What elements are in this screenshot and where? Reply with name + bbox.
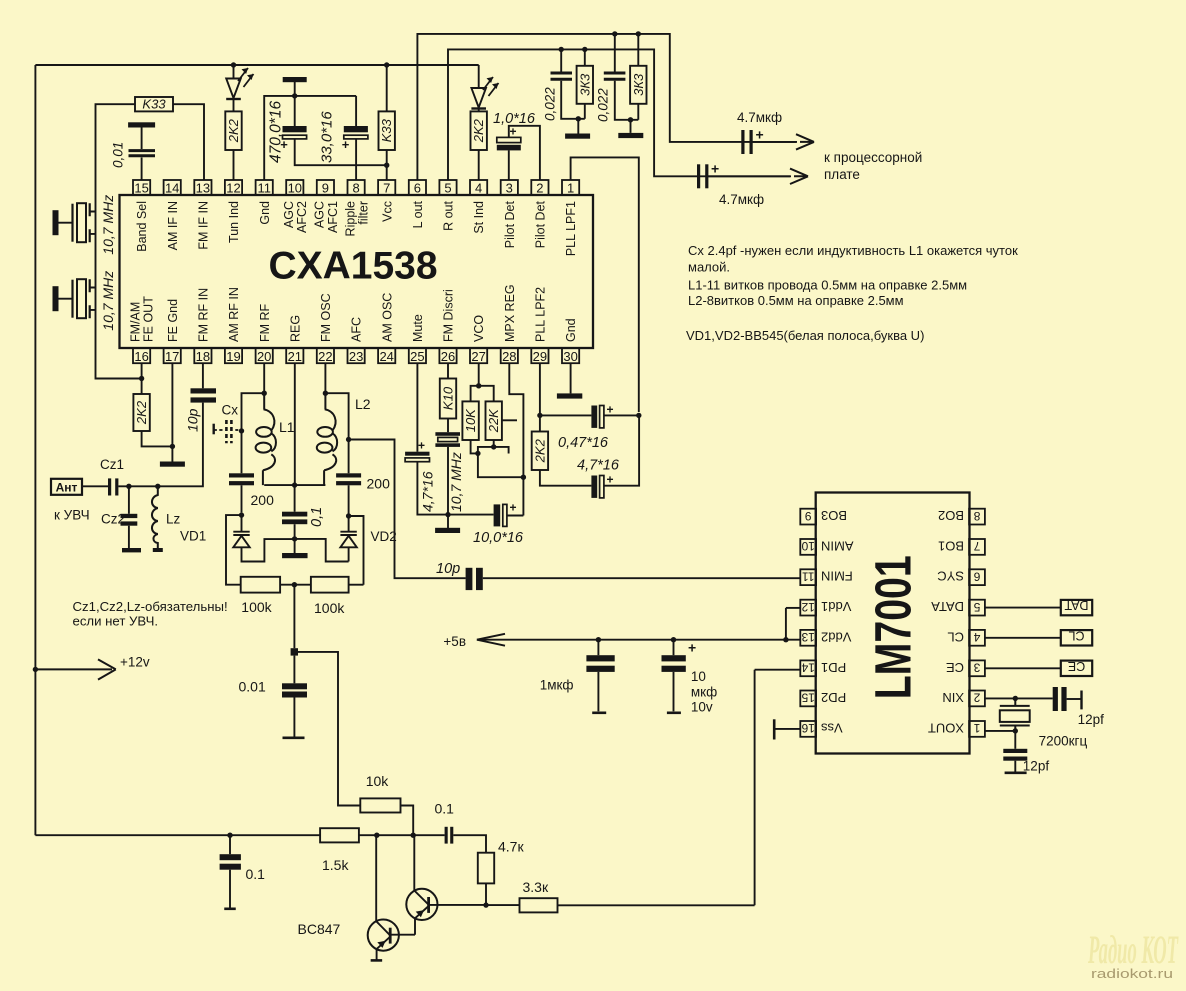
svg-text:16: 16 <box>134 349 148 364</box>
svg-text:плате: плате <box>824 167 860 182</box>
wire <box>637 104 639 120</box>
svg-text:CL: CL <box>947 629 964 644</box>
wire <box>493 514 495 516</box>
wire <box>229 870 231 909</box>
wire 22K stub <box>502 419 517 421</box>
wire <box>142 431 173 446</box>
junction <box>155 484 160 489</box>
node (square junction) <box>291 648 298 655</box>
wire <box>348 485 350 516</box>
U2 pin 3 CE <box>946 660 985 676</box>
svg-text:Vdd2: Vdd2 <box>821 629 851 644</box>
svg-text:22: 22 <box>318 349 332 364</box>
svg-text:Ант: Ант <box>56 480 78 494</box>
junction <box>582 47 587 52</box>
svg-text:+: + <box>607 403 614 417</box>
svg-text:7200кгц: 7200кгц <box>1039 734 1088 749</box>
svg-text:+: + <box>342 137 350 152</box>
IC U1 CXA1538 body <box>120 195 594 348</box>
junction <box>346 437 351 442</box>
junction <box>384 163 389 168</box>
junction <box>231 62 236 67</box>
svg-text:MPX REG: MPX REG <box>503 284 517 342</box>
svg-text:CXA1538: CXA1538 <box>268 245 437 288</box>
svg-text:0,1: 0,1 <box>309 507 325 527</box>
wire <box>280 584 311 586</box>
svg-text:REG: REG <box>288 315 302 342</box>
wire <box>141 128 143 150</box>
pin 21 (REG) <box>286 315 303 364</box>
note text block <box>686 243 1018 343</box>
junction <box>170 444 175 449</box>
svg-text:2K2: 2K2 <box>226 118 241 143</box>
svg-text:DAT: DAT <box>1064 598 1088 612</box>
capacitor 10p (RF in) <box>191 388 217 393</box>
wire <box>229 835 231 854</box>
svg-text:4: 4 <box>475 181 482 196</box>
resistor 3.3к <box>520 898 558 912</box>
svg-text:0.1: 0.1 <box>246 866 266 882</box>
ground (12pf XIN) <box>1080 691 1082 710</box>
antenna terminal box Ант <box>51 479 82 495</box>
pin 29 (PLL LPF2) <box>531 287 548 364</box>
wire <box>1067 698 1081 700</box>
svg-text:3: 3 <box>973 661 980 675</box>
svg-text:2: 2 <box>973 691 980 705</box>
svg-text:BO3: BO3 <box>821 508 847 523</box>
capacitor 12pf (XIN) <box>1053 687 1058 711</box>
wire <box>597 640 599 656</box>
capacitor 0,01 <box>129 151 156 156</box>
wire <box>561 81 585 119</box>
svg-text:Cz1: Cz1 <box>100 457 124 472</box>
capacitor 200 (VD2) <box>336 473 361 477</box>
wire PLL LPF1 <box>571 157 639 412</box>
wire pin27 <box>478 363 480 386</box>
wire pin25 <box>416 363 418 452</box>
svg-text:12: 12 <box>226 181 240 196</box>
wire <box>401 806 414 836</box>
svg-text:200: 200 <box>367 476 391 492</box>
wire <box>604 415 639 485</box>
svg-text:L out: L out <box>411 200 425 228</box>
svg-text:100k: 100k <box>314 600 345 616</box>
svg-text:VD1: VD1 <box>180 529 206 544</box>
resistor 4.7к <box>478 853 494 884</box>
svg-text:0.1: 0.1 <box>435 801 455 817</box>
junction <box>491 444 496 449</box>
note Cz1,Cz2,Lz <box>73 599 228 629</box>
junction <box>521 475 526 480</box>
ground (discri) <box>435 528 460 533</box>
wire <box>242 393 265 473</box>
svg-text:+5в: +5в <box>443 634 466 649</box>
capacitor 4,7*16 (mute) <box>405 452 429 456</box>
wire <box>486 904 520 906</box>
svg-text:14: 14 <box>801 661 815 675</box>
U2 pin 5 DATA <box>931 599 985 615</box>
svg-text:11: 11 <box>257 181 271 196</box>
svg-text:10k: 10k <box>366 773 390 789</box>
resistor 2K2 (PLL) <box>532 432 548 471</box>
U2 pin 4 CL <box>947 629 985 645</box>
svg-text:Pilot Det: Pilot Det <box>534 200 548 248</box>
capacitor 470,0*16 electrolytic <box>283 126 307 132</box>
svg-text:12pf: 12pf <box>1023 759 1050 774</box>
svg-text:CE: CE <box>1068 659 1085 673</box>
svg-text:470,0*16: 470,0*16 <box>268 101 285 163</box>
wire XIN <box>985 697 1053 699</box>
arrow +5в <box>477 634 505 646</box>
wire <box>1014 761 1016 773</box>
svg-text:Tun Ind: Tun Ind <box>227 201 241 243</box>
capacitor 0.01 <box>282 683 307 689</box>
wire pin29 <box>539 363 541 431</box>
wire to 10k <box>298 652 360 806</box>
svg-text:25: 25 <box>410 349 424 364</box>
wire pin28 <box>509 363 523 515</box>
ceramic filter ZQ2 10,7 MHz <box>53 279 96 318</box>
junction <box>628 117 633 122</box>
capacitor 4,7*16 (PLL) <box>591 476 597 498</box>
svg-text:16: 16 <box>801 721 815 735</box>
capacitor 1,0*16 electrolytic <box>497 137 521 142</box>
svg-text:SYC: SYC <box>937 569 964 584</box>
pin 11 (Gnd) <box>256 180 273 225</box>
svg-text:AFC: AFC <box>350 317 364 342</box>
svg-text:33,0*16: 33,0*16 <box>319 111 336 163</box>
svg-text:+: + <box>711 161 719 177</box>
svg-text:1: 1 <box>973 721 980 735</box>
ground (470 cap) <box>283 77 307 82</box>
svg-text:27: 27 <box>471 349 485 364</box>
junction <box>292 536 297 541</box>
ground (Q1) <box>371 959 383 962</box>
connector box CE <box>985 659 1092 676</box>
capacitor 0,022 (pair1) <box>551 73 573 79</box>
svg-text:DATA: DATA <box>931 599 964 614</box>
ground (pin30) <box>557 393 582 398</box>
svg-text:0,47*16: 0,47*16 <box>558 435 609 451</box>
resistor 3К3 (pair2) <box>630 66 646 104</box>
svg-text:6: 6 <box>414 181 421 196</box>
resistor 100k (1) <box>241 577 280 593</box>
wire <box>471 386 479 402</box>
arrow +12v <box>35 659 115 679</box>
svg-text:100k: 100k <box>241 599 272 615</box>
wire L out <box>417 34 796 180</box>
wire <box>293 698 295 738</box>
capacitor 12pf (XOUT) <box>1003 749 1027 753</box>
junction <box>483 902 488 907</box>
junction <box>292 582 297 587</box>
wire <box>295 139 387 165</box>
svg-text:Mute: Mute <box>411 314 425 342</box>
junction <box>292 93 297 98</box>
svg-text:FM OSC: FM OSC <box>319 293 333 342</box>
svg-text:29: 29 <box>533 349 547 364</box>
transistor Q1 BC847 <box>368 835 415 960</box>
svg-text:AFC1: AFC1 <box>326 201 340 233</box>
svg-text:VD2: VD2 <box>371 529 397 544</box>
LED VD stereo indicator <box>471 65 498 111</box>
wire <box>485 883 487 905</box>
svg-text:малой.: малой. <box>688 260 730 275</box>
wire pin18 <box>202 363 204 388</box>
pin 26 (FM Discri) <box>439 289 456 364</box>
junction <box>374 833 379 838</box>
pin 9 (AGC AFC1) <box>313 180 340 233</box>
svg-text:AFC2: AFC2 <box>295 201 309 233</box>
svg-text:21: 21 <box>288 349 302 364</box>
wire <box>294 524 296 553</box>
svg-text:23: 23 <box>349 349 363 364</box>
svg-text:Band Sel: Band Sel <box>135 201 149 252</box>
wire <box>478 447 524 477</box>
svg-text:10p: 10p <box>436 561 460 577</box>
capacitor Cx (dashed, optional) <box>214 420 240 443</box>
svg-text:PLL LPF1: PLL LPF1 <box>564 201 578 256</box>
svg-text:0,022: 0,022 <box>596 88 611 122</box>
pin 13 (FM IF IN) <box>194 180 211 250</box>
wire PD1 down <box>754 670 756 906</box>
wire <box>128 486 130 514</box>
wire <box>604 414 639 416</box>
capacitor 1мкф <box>586 655 614 661</box>
svg-text:FE Gnd: FE Gnd <box>166 299 180 342</box>
svg-text:4.7к: 4.7к <box>498 839 524 855</box>
ceramic discriminator 10,7 MHz <box>435 432 460 447</box>
svg-text:9: 9 <box>805 509 812 523</box>
svg-text:PLL LPF2: PLL LPF2 <box>534 287 548 342</box>
svg-text:13: 13 <box>801 630 815 644</box>
svg-text:+: + <box>607 473 614 487</box>
svg-text:3К3: 3К3 <box>631 73 646 96</box>
wire left +12v bus <box>34 65 36 835</box>
U2 pin 12 Vdd1 <box>800 599 851 615</box>
svg-text:10p: 10p <box>185 408 201 432</box>
capacitor 10,0*16 <box>494 504 501 526</box>
svg-text:6: 6 <box>973 569 980 583</box>
svg-text:15: 15 <box>134 181 148 196</box>
pin 28 (MPX REG) <box>501 284 518 363</box>
wire <box>417 462 493 515</box>
connector box DAT <box>985 598 1092 615</box>
ground (pair2) <box>618 133 643 138</box>
svg-text:R out: R out <box>442 200 456 230</box>
capacitor 4.7мкф (R) <box>697 164 700 188</box>
svg-text:Cz1,Cz2,Lz-обязательны!: Cz1,Cz2,Lz-обязательны! <box>73 599 228 614</box>
resistor K33 (band sel) <box>135 97 173 112</box>
pin 14 (AM IF IN) <box>164 180 181 250</box>
wire <box>637 34 639 66</box>
wire Vdd1 <box>786 607 800 609</box>
wire to pin3 <box>508 150 510 180</box>
wire <box>493 440 495 447</box>
pin 17 (FE Gnd) <box>164 299 181 364</box>
U2 pin 15 PD2 <box>800 690 846 706</box>
U2 pin 11 FMIN <box>800 569 852 585</box>
capacitor 0,47*16 <box>591 406 597 428</box>
pin 24 (AM OSC) <box>378 293 395 364</box>
svg-text:10,0*16: 10,0*16 <box>473 530 524 546</box>
LED VD tuning indicator <box>226 65 253 111</box>
svg-text:0.01: 0.01 <box>239 679 266 695</box>
capacitor 200 (VD1) <box>229 473 254 477</box>
wire VD2 bottom <box>295 539 349 562</box>
wire pin7 <box>386 150 388 180</box>
svg-text:10K: 10K <box>463 408 478 432</box>
resistor K10 <box>440 379 456 419</box>
pin 7 (Vcc) <box>378 180 395 222</box>
svg-text:22K: 22K <box>486 408 501 433</box>
wire K33 top <box>386 65 388 111</box>
svg-text:FM/AM: FM/AM <box>129 302 143 342</box>
svg-text:L2-8витков 0.5мм на оправке 2.: L2-8витков 0.5мм на оправке 2.5мм <box>688 293 904 308</box>
svg-text:10: 10 <box>691 669 706 684</box>
ceramic filter ZQ1 10,7 MHz <box>53 203 96 242</box>
svg-text:AM IF IN: AM IF IN <box>166 201 180 250</box>
svg-text:10v: 10v <box>691 700 713 715</box>
svg-text:19: 19 <box>226 349 240 364</box>
svg-text:L2: L2 <box>355 396 371 412</box>
capacitor 0.1 (emitter) <box>220 854 241 860</box>
pin 3 (Pilot Det) <box>501 180 518 248</box>
pin 23 (AFC) <box>348 317 365 364</box>
svg-text:10: 10 <box>801 539 815 553</box>
wire <box>264 484 294 486</box>
svg-text:Gnd: Gnd <box>258 201 272 225</box>
wire <box>294 82 296 126</box>
svg-text:10,7 MHz: 10,7 MHz <box>448 452 464 512</box>
pin 27 (VCO) <box>470 315 487 364</box>
pin 15 (Band Sel) <box>133 180 150 252</box>
svg-text:3К3: 3К3 <box>577 73 592 96</box>
wire pin16 down <box>141 363 143 394</box>
junction <box>384 62 389 67</box>
wire <box>233 150 235 180</box>
wire <box>325 393 348 473</box>
U2 pin 7 BO1 <box>938 538 985 554</box>
wire <box>141 158 143 181</box>
capacitor 0,022 (pair2) <box>604 73 626 79</box>
wire pin30 <box>570 363 572 393</box>
svg-text:Ripple: Ripple <box>343 201 357 236</box>
resistor 100k (2) <box>311 577 349 593</box>
svg-text:+: + <box>418 439 425 453</box>
pin 2 (Pilot Det) <box>531 180 548 248</box>
svg-text:11: 11 <box>802 569 815 583</box>
ground (12pf XOUT) <box>1005 771 1027 774</box>
junction <box>476 383 481 388</box>
wire <box>540 470 592 486</box>
svg-text:K10: K10 <box>441 386 456 410</box>
junction <box>576 116 581 121</box>
svg-text:PD2: PD2 <box>821 690 846 705</box>
wire pin20 <box>263 363 265 393</box>
svg-text:FM IF IN: FM IF IN <box>197 201 211 250</box>
svg-text:FM Discri: FM Discri <box>442 289 456 342</box>
junction <box>475 451 480 456</box>
svg-text:+: + <box>756 127 764 143</box>
svg-text:+: + <box>510 501 517 515</box>
svg-text:30: 30 <box>563 349 577 364</box>
wire to pin2 <box>509 126 540 180</box>
wire pin11 up <box>264 96 356 180</box>
wire <box>294 485 296 512</box>
U2 pin 6 SYC <box>937 569 985 585</box>
svg-text:FE OUT: FE OUT <box>142 296 156 342</box>
wire to pin13 <box>173 104 204 180</box>
svg-text:radiokot.ru: radiokot.ru <box>1091 967 1173 981</box>
wire FMIN <box>483 577 801 579</box>
resistor 2K2 (tun ind) <box>225 111 241 150</box>
svg-text:BO1: BO1 <box>938 538 964 553</box>
svg-text:10,7 MHz: 10,7 MHz <box>100 271 116 331</box>
junction <box>411 833 416 838</box>
junction <box>292 482 297 487</box>
varactor diode VD2 <box>340 516 356 562</box>
wire <box>597 672 599 711</box>
svg-text:8: 8 <box>973 509 980 523</box>
junction <box>636 413 641 418</box>
wire to pin8 <box>355 139 357 180</box>
junction <box>445 512 450 517</box>
wire <box>560 49 562 71</box>
junction <box>239 512 244 517</box>
svg-text:K33: K33 <box>142 97 166 112</box>
wire bottom rail <box>35 834 320 836</box>
ground (pin17) <box>160 462 185 467</box>
capacitor 4.7мкф (L) <box>741 130 744 154</box>
U2 pin 9 BO3 <box>800 508 847 524</box>
resistor 2K2 (FE out) <box>133 394 149 431</box>
svg-text:filter: filter <box>357 201 371 225</box>
resistor 1.5k <box>320 828 359 842</box>
ground (0,1) <box>282 553 308 558</box>
transistor Q2 BC847 <box>406 835 486 935</box>
svg-text:2K2: 2K2 <box>134 400 149 425</box>
U2 pin 8 BO2 <box>938 508 985 524</box>
wire to PD1 <box>558 904 755 906</box>
wire pin17 gnd <box>171 363 173 461</box>
pin 8 (Ripple filter) <box>343 180 370 236</box>
junction <box>1013 696 1018 701</box>
junction <box>612 31 617 36</box>
resistor 10K <box>462 401 478 440</box>
ground (Vss) <box>773 719 776 739</box>
wire <box>349 584 364 586</box>
svg-text:4,7*16: 4,7*16 <box>420 471 436 512</box>
svg-text:Lz: Lz <box>166 512 181 527</box>
junction <box>783 637 788 642</box>
arrow to processor board (upper) <box>796 134 814 149</box>
capacitor Cz2 <box>121 514 138 518</box>
ground (Lz) <box>153 548 163 552</box>
svg-text:AM OSC: AM OSC <box>380 293 394 342</box>
wire PD1 <box>755 669 801 671</box>
svg-text:FM RF: FM RF <box>258 303 272 342</box>
svg-text:L1: L1 <box>279 419 295 435</box>
junction <box>671 637 676 642</box>
junction <box>537 413 542 418</box>
pin 18 (FM RF IN) <box>194 288 211 364</box>
U2 pin 14 PD1 <box>800 660 846 676</box>
svg-text:5: 5 <box>444 181 451 196</box>
svg-text:AM RF IN: AM RF IN <box>227 287 241 342</box>
wire XOUT <box>985 730 1015 732</box>
svg-text:+: + <box>688 640 696 656</box>
